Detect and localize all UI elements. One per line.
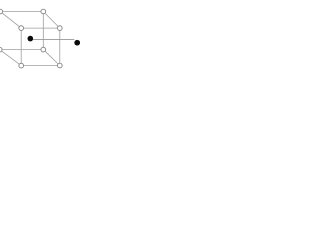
node corner atom back-top-right xyxy=(41,9,46,14)
node corner atom back-top-left xyxy=(0,9,3,14)
node body-centre atom xyxy=(28,36,34,42)
wire front-right edge xyxy=(59,28,61,65)
wire depth edge top-right xyxy=(43,12,60,29)
wire back-bottom edge xyxy=(0,49,43,51)
wire front-left edge xyxy=(20,28,22,66)
wire front-bottom edge xyxy=(21,65,60,67)
node corner atom front-bottom-left xyxy=(19,63,24,68)
wire depth edge top-left xyxy=(0,12,21,29)
wire depth edge bottom-right xyxy=(43,50,60,66)
wire depth edge bottom-left xyxy=(0,50,21,66)
unit-cell diagram xyxy=(0,0,80,80)
node corner atom back-bottom-right xyxy=(41,47,46,52)
wire back-right edge xyxy=(42,12,44,50)
node corner atom front-top-right xyxy=(57,26,62,31)
wire back-top edge xyxy=(0,11,43,13)
node corner atom front-bottom-right xyxy=(57,63,62,68)
wire front-top edge xyxy=(21,27,60,29)
wire pointer line from centre atom to legend dot xyxy=(31,38,74,40)
node legend atom at right edge xyxy=(74,40,80,46)
node corner atom back-bottom-left xyxy=(0,47,2,52)
node corner atom front-top-left xyxy=(19,26,24,31)
